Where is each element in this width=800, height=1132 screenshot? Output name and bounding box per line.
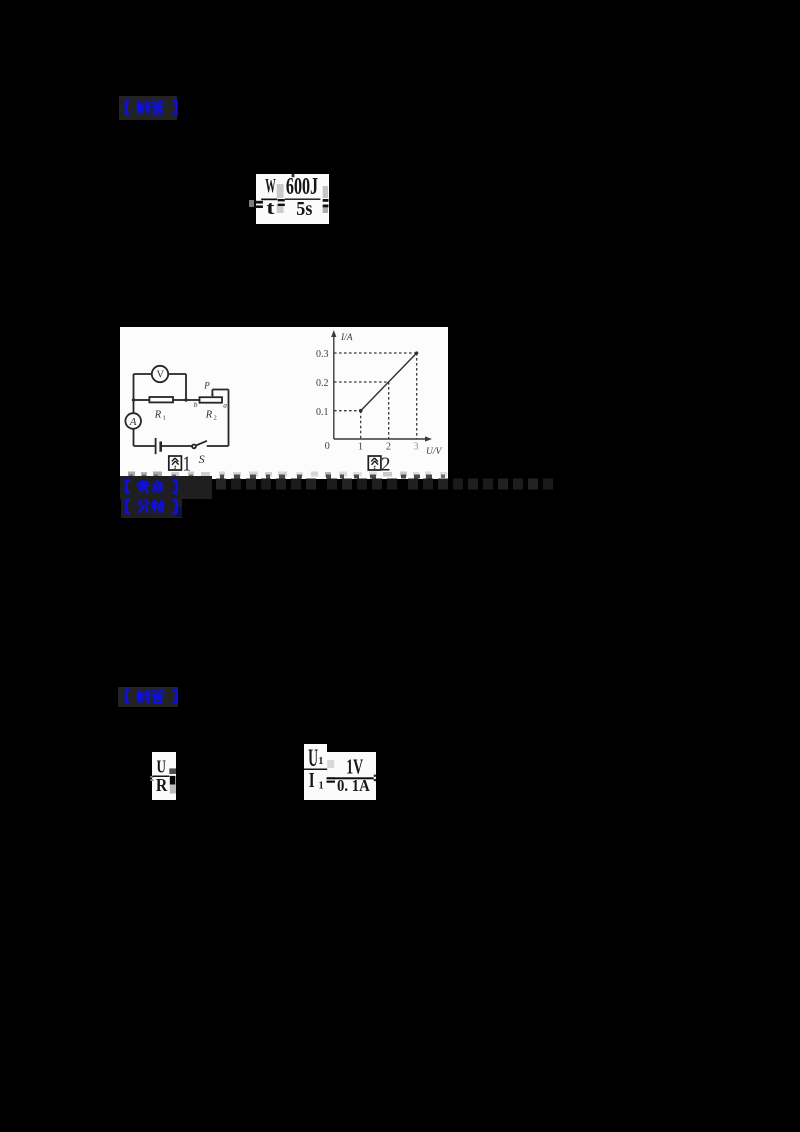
svg-text:1V: 1V (346, 754, 363, 778)
x axis arrowhead (425, 436, 432, 441)
slider arrowhead (211, 395, 214, 398)
gray speckle remnants along bottom of figure (128, 472, 447, 479)
battery long plate (155, 438, 157, 454)
voltmeter U1 circle (152, 366, 168, 382)
caption 图2 (368, 456, 381, 470)
dashed guide lines (334, 353, 417, 439)
left clipped equals (150, 776, 153, 778)
caption 图1 (169, 456, 182, 470)
svg-text:P: P (203, 381, 210, 391)
data point (1,0.1) (359, 409, 363, 413)
svg-text:1: 1 (319, 780, 324, 791)
node A dot (132, 398, 135, 401)
gray jpeg artifacts (249, 174, 328, 213)
wire: battery to switch (161, 445, 192, 447)
header box 2 (【解答】 blue) (118, 687, 178, 707)
wire: voltmeter branch left vertical (133, 374, 135, 400)
y axis arrowhead (331, 330, 336, 337)
svg-text:I/A: I/A (340, 333, 353, 343)
svg-text:R: R (156, 775, 168, 795)
node B dot (184, 398, 187, 401)
switch lever (196, 441, 207, 446)
svg-text:2: 2 (214, 415, 217, 422)
y axis (334, 334, 428, 439)
svg-text:5s: 5s (296, 198, 312, 220)
svg-text:2: 2 (386, 442, 391, 453)
glyph defs (0, 0, 1, 1)
header box 1 (【解答】 blue) (119, 96, 177, 120)
formula 1: = W/t = 600J/5s = (256, 174, 329, 224)
svg-text:1: 1 (318, 756, 323, 767)
left clipped equals (255, 201, 263, 208)
svg-text:U: U (157, 757, 166, 777)
svg-text:0.1: 0.1 (316, 407, 329, 418)
rheostat slider P stem (211, 390, 213, 397)
header 【考点】 (120, 476, 212, 499)
svg-text:t: t (266, 198, 275, 219)
faint gray remnant text line after 考点 (184, 477, 564, 491)
svg-text:600J: 600J (286, 174, 318, 200)
wire: slider to right (212, 389, 228, 391)
equals (278, 199, 285, 206)
wire: top horizontal to V (134, 373, 152, 375)
svg-text:S: S (199, 452, 205, 466)
data point (3,0.3) (415, 351, 418, 354)
wire: V to right (168, 373, 186, 375)
header 【分析】 (121, 497, 182, 518)
wire: left vertical to ammeter (133, 400, 135, 413)
right clipped equals (374, 775, 376, 777)
wire: main line node to R1 (134, 399, 150, 401)
resistor R1 box (149, 397, 173, 402)
wire: bottom left to battery (134, 445, 156, 447)
wire: ammeter to bottom (133, 429, 135, 446)
formula 2: fraction U/R1 (152, 752, 176, 800)
svg-text:b: b (194, 400, 198, 409)
svg-text:W: W (265, 175, 276, 197)
dark subscript squares (169, 768, 176, 774)
light gray square artifact (327, 760, 334, 768)
formula 3: U1/I1 = 1V/0.1A (304, 744, 327, 800)
svg-text:0. 1A: 0. 1A (337, 776, 370, 795)
svg-text:0.2: 0.2 (316, 378, 329, 389)
svg-text:a: a (223, 401, 227, 410)
I-U data line (361, 353, 417, 411)
battery short plate (159, 442, 162, 452)
right clipped equals (323, 199, 329, 207)
wire: switch to right corner (207, 445, 229, 447)
equals (327, 777, 336, 779)
svg-text:0: 0 (325, 441, 330, 452)
svg-text:1: 1 (163, 415, 166, 422)
svg-text:A: A (129, 416, 137, 428)
switch S pivot (192, 445, 196, 449)
navy smudge after 分析 (176, 507, 182, 517)
wire: R1 to node B (173, 399, 186, 401)
svg-text:0.3: 0.3 (316, 349, 329, 360)
svg-text:I: I (309, 768, 315, 792)
rheostat R2 box (200, 397, 223, 403)
svg-text:3: 3 (414, 442, 419, 453)
svg-text:V: V (157, 370, 165, 381)
ammeter circle (125, 413, 141, 429)
figure white box (120, 327, 448, 479)
svg-text:R: R (205, 410, 213, 421)
svg-text:R: R (154, 410, 162, 421)
wire: right vertical of V branch (185, 374, 187, 400)
svg-text:1: 1 (358, 442, 363, 453)
wire: node B to R2 (186, 399, 200, 401)
svg-text:U/V: U/V (426, 447, 443, 457)
wire: right vertical (228, 390, 230, 447)
